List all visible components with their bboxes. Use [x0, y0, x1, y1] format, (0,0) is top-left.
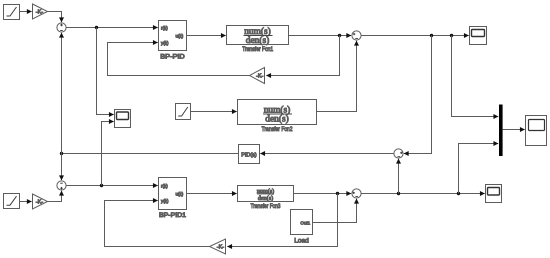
- wire Signal3 to gain G2: [20, 201, 32, 203]
- wire BP-PID u(k) to Transfer Fcn1: [187, 35, 226, 37]
- transfer function Transfer Fcn2: [238, 100, 317, 134]
- svg-text:Transfer Fcn3: Transfer Fcn3: [251, 203, 281, 210]
- svg-text:u(k): u(k): [175, 33, 183, 38]
- svg-text:-K-: -K-: [36, 10, 43, 16]
- wire node A down to gain G3: [266, 36, 339, 76]
- sum S4 (middle-right summing junction, +/-): [394, 149, 403, 158]
- source block Signal2 (ramp/saturation icon, middle): [176, 104, 191, 120]
- sum S1 (top-left summing junction, +/-): [57, 23, 66, 32]
- wire sum S4 to PID(s) input: [260, 153, 394, 155]
- svg-text:den(s): den(s): [246, 35, 269, 46]
- wire branch up to sum S1 bottom: [61, 33, 63, 154]
- svg-text:y(k): y(k): [161, 199, 169, 204]
- junction node C: [450, 34, 453, 37]
- svg-text:-K-: -K-: [217, 245, 224, 251]
- gain G3 (-K- feedback, points left): [250, 68, 265, 84]
- wire Load to sum S3 bottom: [313, 199, 357, 223]
- wire sum S3 to Scope2 (bottom right): [361, 193, 485, 195]
- svg-text:Transfer Fcn2: Transfer Fcn2: [262, 126, 293, 133]
- sum S3 (bottom-right summing junction, +/-): [352, 189, 361, 198]
- subsystem BP-PID1: [159, 178, 187, 219]
- gain G1 (-K-): [33, 4, 48, 19]
- junction node error1: [95, 26, 98, 29]
- junction node B: [430, 34, 433, 37]
- source block Signal1 (ramp/saturation icon, top-left): [4, 5, 20, 20]
- svg-text:Load: Load: [294, 237, 309, 244]
- svg-text:r(k): r(k): [161, 184, 168, 189]
- transfer function Transfer Fcn1: [227, 26, 289, 54]
- wire node C down to Mux input 1: [452, 36, 499, 117]
- junction node D (PID branch): [60, 152, 63, 155]
- sum S5 (top-right summing junction, +/-): [352, 31, 361, 40]
- wire sum S1 to BP-PID r(k): [66, 27, 158, 29]
- gain G4 (-K- feedback, points left): [210, 239, 226, 254]
- junction node F (plant2 output): [336, 192, 339, 195]
- mux Mux (black bar): [499, 105, 503, 157]
- scope Scope (middle, two inputs): [115, 110, 131, 128]
- wire BP-PID1 u(k) to Transfer Fcn3: [187, 193, 237, 195]
- wire Mux output to Scope4 (right scope): [503, 129, 525, 131]
- scope Scope1 (top right): [470, 27, 487, 45]
- svg-text:PID(s): PID(s): [241, 152, 257, 158]
- wire node error2 up to Scope middle input 2: [102, 122, 114, 186]
- scope Scope2 (bottom right): [486, 185, 502, 203]
- gain G2 (-K-): [33, 194, 48, 209]
- wire node B down to sum S4 right: [404, 36, 432, 154]
- wire gain G1 to sum S1 top: [48, 12, 62, 23]
- subsystem Load (with Out1 port): [291, 210, 313, 245]
- svg-text:-K-: -K-: [256, 74, 263, 80]
- wire sum S5 to Scope1: [361, 35, 469, 37]
- wire Transfer Fcn1 to sum S5 left: [289, 35, 352, 37]
- junction node H: [457, 192, 460, 195]
- controller block PID(s): [239, 145, 260, 164]
- wire gain G2 to sum S2 bottom: [48, 191, 62, 202]
- transfer function Transfer Fcn3: [238, 186, 294, 211]
- svg-text:Transfer Fcn1: Transfer Fcn1: [242, 46, 273, 53]
- source block Signal3 (ramp/saturation icon, bottom-left): [4, 194, 20, 209]
- svg-text:den(s): den(s): [258, 195, 273, 202]
- wire Transfer Fcn2 up to sum S5 bottom: [317, 41, 357, 112]
- subsystem BP-PID: [159, 21, 187, 61]
- svg-text:-K-: -K-: [36, 200, 43, 206]
- wire Signal2 to Transfer Fcn2: [191, 111, 237, 113]
- wire branch down to sum S2 top: [61, 154, 63, 181]
- svg-text:u(k): u(k): [175, 191, 183, 196]
- svg-text:BP-PID1: BP-PID1: [159, 212, 186, 219]
- svg-text:BP-PID: BP-PID: [160, 53, 185, 60]
- wire node F down to gain G4: [227, 194, 337, 247]
- wire gain G3 to BP-PID y(k): [108, 43, 250, 76]
- wire node H up to Mux input 2: [459, 144, 499, 194]
- wire sum S2 to BP-PID1 r(k): [66, 185, 158, 187]
- wire node error1 down to Scope middle input 1: [97, 28, 114, 115]
- junction node error2: [100, 184, 103, 187]
- svg-text:y(k): y(k): [161, 41, 169, 46]
- svg-text:r(k): r(k): [161, 26, 168, 31]
- scope Scope4 (far right, large): [526, 116, 547, 146]
- wire Transfer Fcn3 to sum S3 left: [294, 193, 352, 195]
- sum S2 (bottom-left summing junction, -/+): [57, 181, 66, 190]
- wire node G up to sum S4 bottom: [398, 159, 400, 194]
- wire gain G4 to BP-PID1 y(k): [105, 201, 210, 247]
- svg-text:Out1: Out1: [300, 220, 310, 225]
- junction node G: [397, 192, 400, 195]
- svg-text:den(s): den(s): [265, 114, 288, 125]
- wire Signal1 to gain G1: [20, 11, 32, 13]
- junction node A (plant1 output): [338, 34, 341, 37]
- wire PID(s) output to branch node D: [62, 153, 239, 155]
